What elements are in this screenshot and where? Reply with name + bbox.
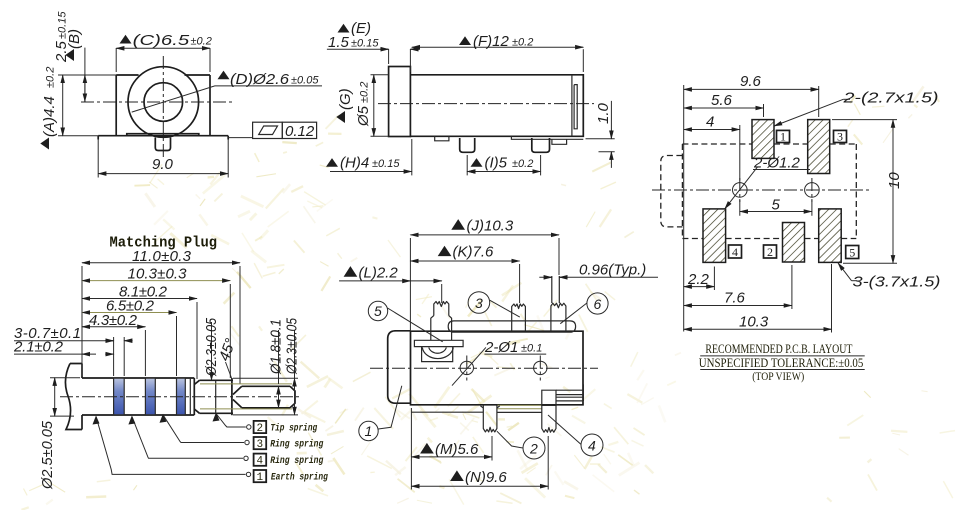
pad 1 <box>752 120 774 159</box>
svg-text:11.0±0.3: 11.0±0.3 <box>132 248 192 265</box>
dim C 6.5 <box>116 48 210 72</box>
rivet bracket bar <box>414 340 463 346</box>
svg-text:±0.15: ±0.15 <box>372 158 400 170</box>
svg-text:1: 1 <box>365 423 373 439</box>
dim D leader <box>132 86 322 112</box>
svg-text:(L)2.2: (L)2.2 <box>359 265 399 282</box>
centerline <box>370 367 598 369</box>
svg-text:9.0: 9.0 <box>152 156 174 173</box>
svg-text:RECOMMENDED P.C.B. LAYOUT: RECOMMENDED P.C.B. LAYOUT <box>705 342 852 356</box>
svg-text:1.5: 1.5 <box>328 34 350 51</box>
dim 7.6 <box>791 265 793 309</box>
flange bottom plate <box>98 134 228 140</box>
dim dia1.8 <box>200 384 292 409</box>
centerline <box>60 396 300 398</box>
tip cylinder <box>242 386 295 408</box>
svg-text:(D)Ø2.6: (D)Ø2.6 <box>230 71 290 88</box>
leader 2-(2.7x1.5) <box>843 98 850 100</box>
dim K 7.6 <box>519 264 521 303</box>
leader tip spring <box>216 414 246 428</box>
spring 6 fork <box>551 276 566 331</box>
svg-text:4: 4 <box>732 245 738 259</box>
body <box>410 75 583 137</box>
dim G dia5 <box>371 75 389 137</box>
dim 2.1 <box>14 353 96 355</box>
svg-text:2-Ø1: 2-Ø1 <box>484 339 518 356</box>
leader earth spring <box>96 417 246 475</box>
dim 1.0 right <box>586 139 615 152</box>
svg-text:2.1±0.2: 2.1±0.2 <box>13 339 64 356</box>
pad 4 label <box>729 245 742 258</box>
dim dia2.3 second <box>233 378 298 415</box>
center pin <box>155 138 170 151</box>
small tab right <box>552 139 567 144</box>
svg-text:(I)5: (I)5 <box>485 155 508 172</box>
svg-text:2: 2 <box>257 423 264 435</box>
svg-text:4: 4 <box>588 438 596 454</box>
svg-text:(A)4.4: (A)4.4 <box>41 96 58 137</box>
bottom second line <box>411 411 483 413</box>
spring 3 fork <box>512 304 526 331</box>
svg-text:3: 3 <box>837 130 843 144</box>
pad 3 <box>808 120 830 174</box>
svg-text:Ø5: Ø5 <box>355 105 372 127</box>
dim I 5 <box>467 171 540 173</box>
svg-text:(F)12: (F)12 <box>473 33 509 50</box>
dim 4.3 <box>144 330 146 376</box>
dim F 12 <box>582 49 584 72</box>
component outline dashed <box>682 144 856 239</box>
centerline horizontal <box>81 101 232 103</box>
svg-text:(C)6.5: (C)6.5 <box>133 32 190 49</box>
body <box>411 331 584 405</box>
svg-text:10.3: 10.3 <box>739 314 769 331</box>
bottom tab left <box>435 136 449 141</box>
scan noise speckles <box>489 282 681 474</box>
svg-text:(TOP VIEW): (TOP VIEW) <box>752 371 804 383</box>
dim 4 <box>739 125 741 181</box>
svg-text:(H)4: (H)4 <box>340 155 369 172</box>
dim 2.2 <box>713 267 715 291</box>
svg-text:1: 1 <box>257 472 264 484</box>
svg-text:3-(3.7x1.5): 3-(3.7x1.5) <box>853 274 941 291</box>
svg-text:(J)10.3: (J)10.3 <box>467 218 514 235</box>
neck with chamfers <box>194 380 233 413</box>
svg-text:Ø2.3±0.05: Ø2.3±0.05 <box>203 317 220 376</box>
dim H 4 <box>412 139 467 175</box>
dim L 2.2 <box>339 281 442 303</box>
spring 2 fork (down) <box>480 405 499 432</box>
dim A 4.4 (left) <box>58 75 116 136</box>
rivet dome <box>422 348 453 359</box>
leader ring spring 3 <box>163 415 244 443</box>
circled 5 <box>368 301 387 320</box>
band 2 <box>145 379 155 414</box>
dim M 5.6 <box>411 408 492 490</box>
tip flange vertical <box>231 378 233 415</box>
svg-text:0.96(Typ.): 0.96(Typ.) <box>579 262 646 279</box>
svg-text:10: 10 <box>886 172 903 189</box>
svg-text:±0.15: ±0.15 <box>351 38 379 50</box>
dim dia2.5 (left) <box>50 378 80 416</box>
svg-text:10.3±0.3: 10.3±0.3 <box>128 266 188 283</box>
holes 2-dia1 <box>460 361 473 374</box>
label 1 earth spring <box>254 470 267 482</box>
circled 6 <box>587 293 608 314</box>
svg-text:2: 2 <box>767 245 773 259</box>
dim 10.3 <box>229 284 231 378</box>
bottom plate right <box>511 136 583 139</box>
circled 2 <box>523 437 545 459</box>
svg-text:±0.2: ±0.2 <box>191 36 212 48</box>
svg-text:Tip spring: Tip spring <box>270 423 317 435</box>
svg-text:Ø2.5±0.05: Ø2.5±0.05 <box>39 420 56 490</box>
svg-text:Ø2.3±0.05: Ø2.3±0.05 <box>284 317 301 374</box>
spring 4 terminal lines <box>556 384 583 401</box>
dim 6.5 <box>176 316 178 376</box>
svg-text:5: 5 <box>849 246 855 260</box>
svg-text:Earth spring: Earth spring <box>271 472 328 484</box>
bottom mid strip <box>497 405 542 408</box>
svg-text:1: 1 <box>780 130 786 144</box>
svg-text:4.3±0.2: 4.3±0.2 <box>89 312 138 329</box>
svg-text:2.5: 2.5 <box>53 40 70 63</box>
svg-text:(E): (E) <box>351 20 371 37</box>
band 1 <box>114 379 125 414</box>
pad 4 <box>703 209 726 263</box>
spring 5 fork <box>431 302 452 341</box>
dim dia2.3 first <box>211 322 213 380</box>
spring 4 body <box>542 390 556 405</box>
tip cone <box>233 386 242 408</box>
svg-text:5: 5 <box>772 197 781 214</box>
outline left protrusion dashed <box>661 156 683 227</box>
svg-text:0.12: 0.12 <box>285 123 315 140</box>
svg-text:9.6: 9.6 <box>740 73 762 90</box>
svg-text:4: 4 <box>257 456 264 468</box>
svg-text:Ø1.8±0.1: Ø1.8±0.1 <box>268 319 285 375</box>
hole left <box>733 183 748 198</box>
svg-text:(N)9.6: (N)9.6 <box>465 469 507 486</box>
body outline <box>116 75 210 136</box>
leader 2-dia1 <box>452 347 486 385</box>
pad 5 label <box>846 246 859 259</box>
svg-text:2-(2.7x1.5): 2-(2.7x1.5) <box>842 90 938 107</box>
svg-text:5.6: 5.6 <box>711 92 733 109</box>
flange <box>389 67 411 137</box>
svg-text:3: 3 <box>257 439 264 451</box>
svg-text:(G): (G) <box>337 88 354 110</box>
svg-text:Ring spring: Ring spring <box>270 455 323 467</box>
top terminal plate <box>448 321 575 332</box>
dim 8.1 <box>196 302 198 379</box>
svg-text:±0.2: ±0.2 <box>512 158 533 170</box>
dim 9.0 <box>98 139 228 178</box>
svg-text:3: 3 <box>475 295 483 311</box>
svg-text:±0.05: ±0.05 <box>291 75 319 87</box>
dim 5 (holes) <box>740 199 812 216</box>
dim 3-0.7 <box>114 337 125 376</box>
barrel left <box>388 331 411 403</box>
shaft end verticals <box>189 378 191 415</box>
leader ring spring 4 <box>132 417 243 459</box>
centerline <box>652 189 872 191</box>
dim 5.6 <box>763 104 765 117</box>
svg-text:Ring spring: Ring spring <box>270 439 323 451</box>
svg-text:4: 4 <box>706 114 714 131</box>
inner right lines <box>572 75 577 137</box>
circled 3 <box>468 292 490 314</box>
dim 11.0 <box>82 266 240 384</box>
tip contact line <box>215 381 217 413</box>
45 deg note <box>226 362 232 378</box>
label 4 ring spring <box>254 454 267 466</box>
rivet side plates <box>422 347 453 362</box>
circled 1 <box>359 421 378 440</box>
pad 5 <box>819 209 842 263</box>
centerline vertical <box>162 56 164 160</box>
dim B 2.5 (left) <box>84 48 86 102</box>
svg-text:±0.2: ±0.2 <box>359 82 371 103</box>
spring 4 fork (down) <box>542 405 556 432</box>
dim 9.6 <box>684 85 819 332</box>
inner circle <box>144 83 183 122</box>
svg-text:5: 5 <box>374 303 382 319</box>
svg-text:UNSPECIFIED TOLERANCE:±0.05: UNSPECIFIED TOLERANCE:±0.05 <box>699 356 864 370</box>
flatness frame 0.12 <box>228 137 252 139</box>
svg-text:2-Ø1.2: 2-Ø1.2 <box>753 155 801 172</box>
dim 0.96 typ <box>539 276 658 278</box>
label 2 tip spring <box>254 421 267 433</box>
pad 2 label <box>764 245 777 258</box>
dim 10.3 <box>831 264 833 333</box>
svg-text:2: 2 <box>529 441 538 457</box>
dim J 10.3 <box>410 238 559 331</box>
svg-text:7.6: 7.6 <box>724 290 746 307</box>
dim N 9.6 <box>547 436 549 490</box>
svg-text:2.2: 2.2 <box>687 271 710 288</box>
band 3 <box>177 379 186 414</box>
hole right <box>805 183 820 198</box>
centerline <box>378 103 594 105</box>
foot 2 <box>532 138 550 152</box>
handle <box>65 364 82 430</box>
foot 1 <box>460 138 475 152</box>
svg-text:(K)7.6: (K)7.6 <box>453 244 495 261</box>
circled 4 <box>581 434 603 456</box>
outer circle <box>128 67 199 138</box>
leader 2-dia1.2 <box>725 167 758 209</box>
pad 1 label <box>777 130 790 142</box>
dim 10 (right) <box>832 120 897 264</box>
pad 3 label <box>834 130 847 142</box>
leader 3-(3.7x1.5) <box>852 280 858 282</box>
label 3 ring spring <box>254 437 267 449</box>
svg-text:6: 6 <box>594 296 602 312</box>
svg-text:±0.2: ±0.2 <box>512 37 533 49</box>
pad 2 <box>783 223 805 263</box>
svg-text:±0.1: ±0.1 <box>521 343 542 355</box>
svg-text:±0.15: ±0.15 <box>57 11 69 39</box>
svg-text:±0.2: ±0.2 <box>45 67 57 88</box>
shaft <box>82 378 194 415</box>
svg-text:1.0: 1.0 <box>595 102 612 124</box>
svg-text:(M)5.6: (M)5.6 <box>435 441 479 458</box>
dim E 1.5 <box>389 49 411 72</box>
